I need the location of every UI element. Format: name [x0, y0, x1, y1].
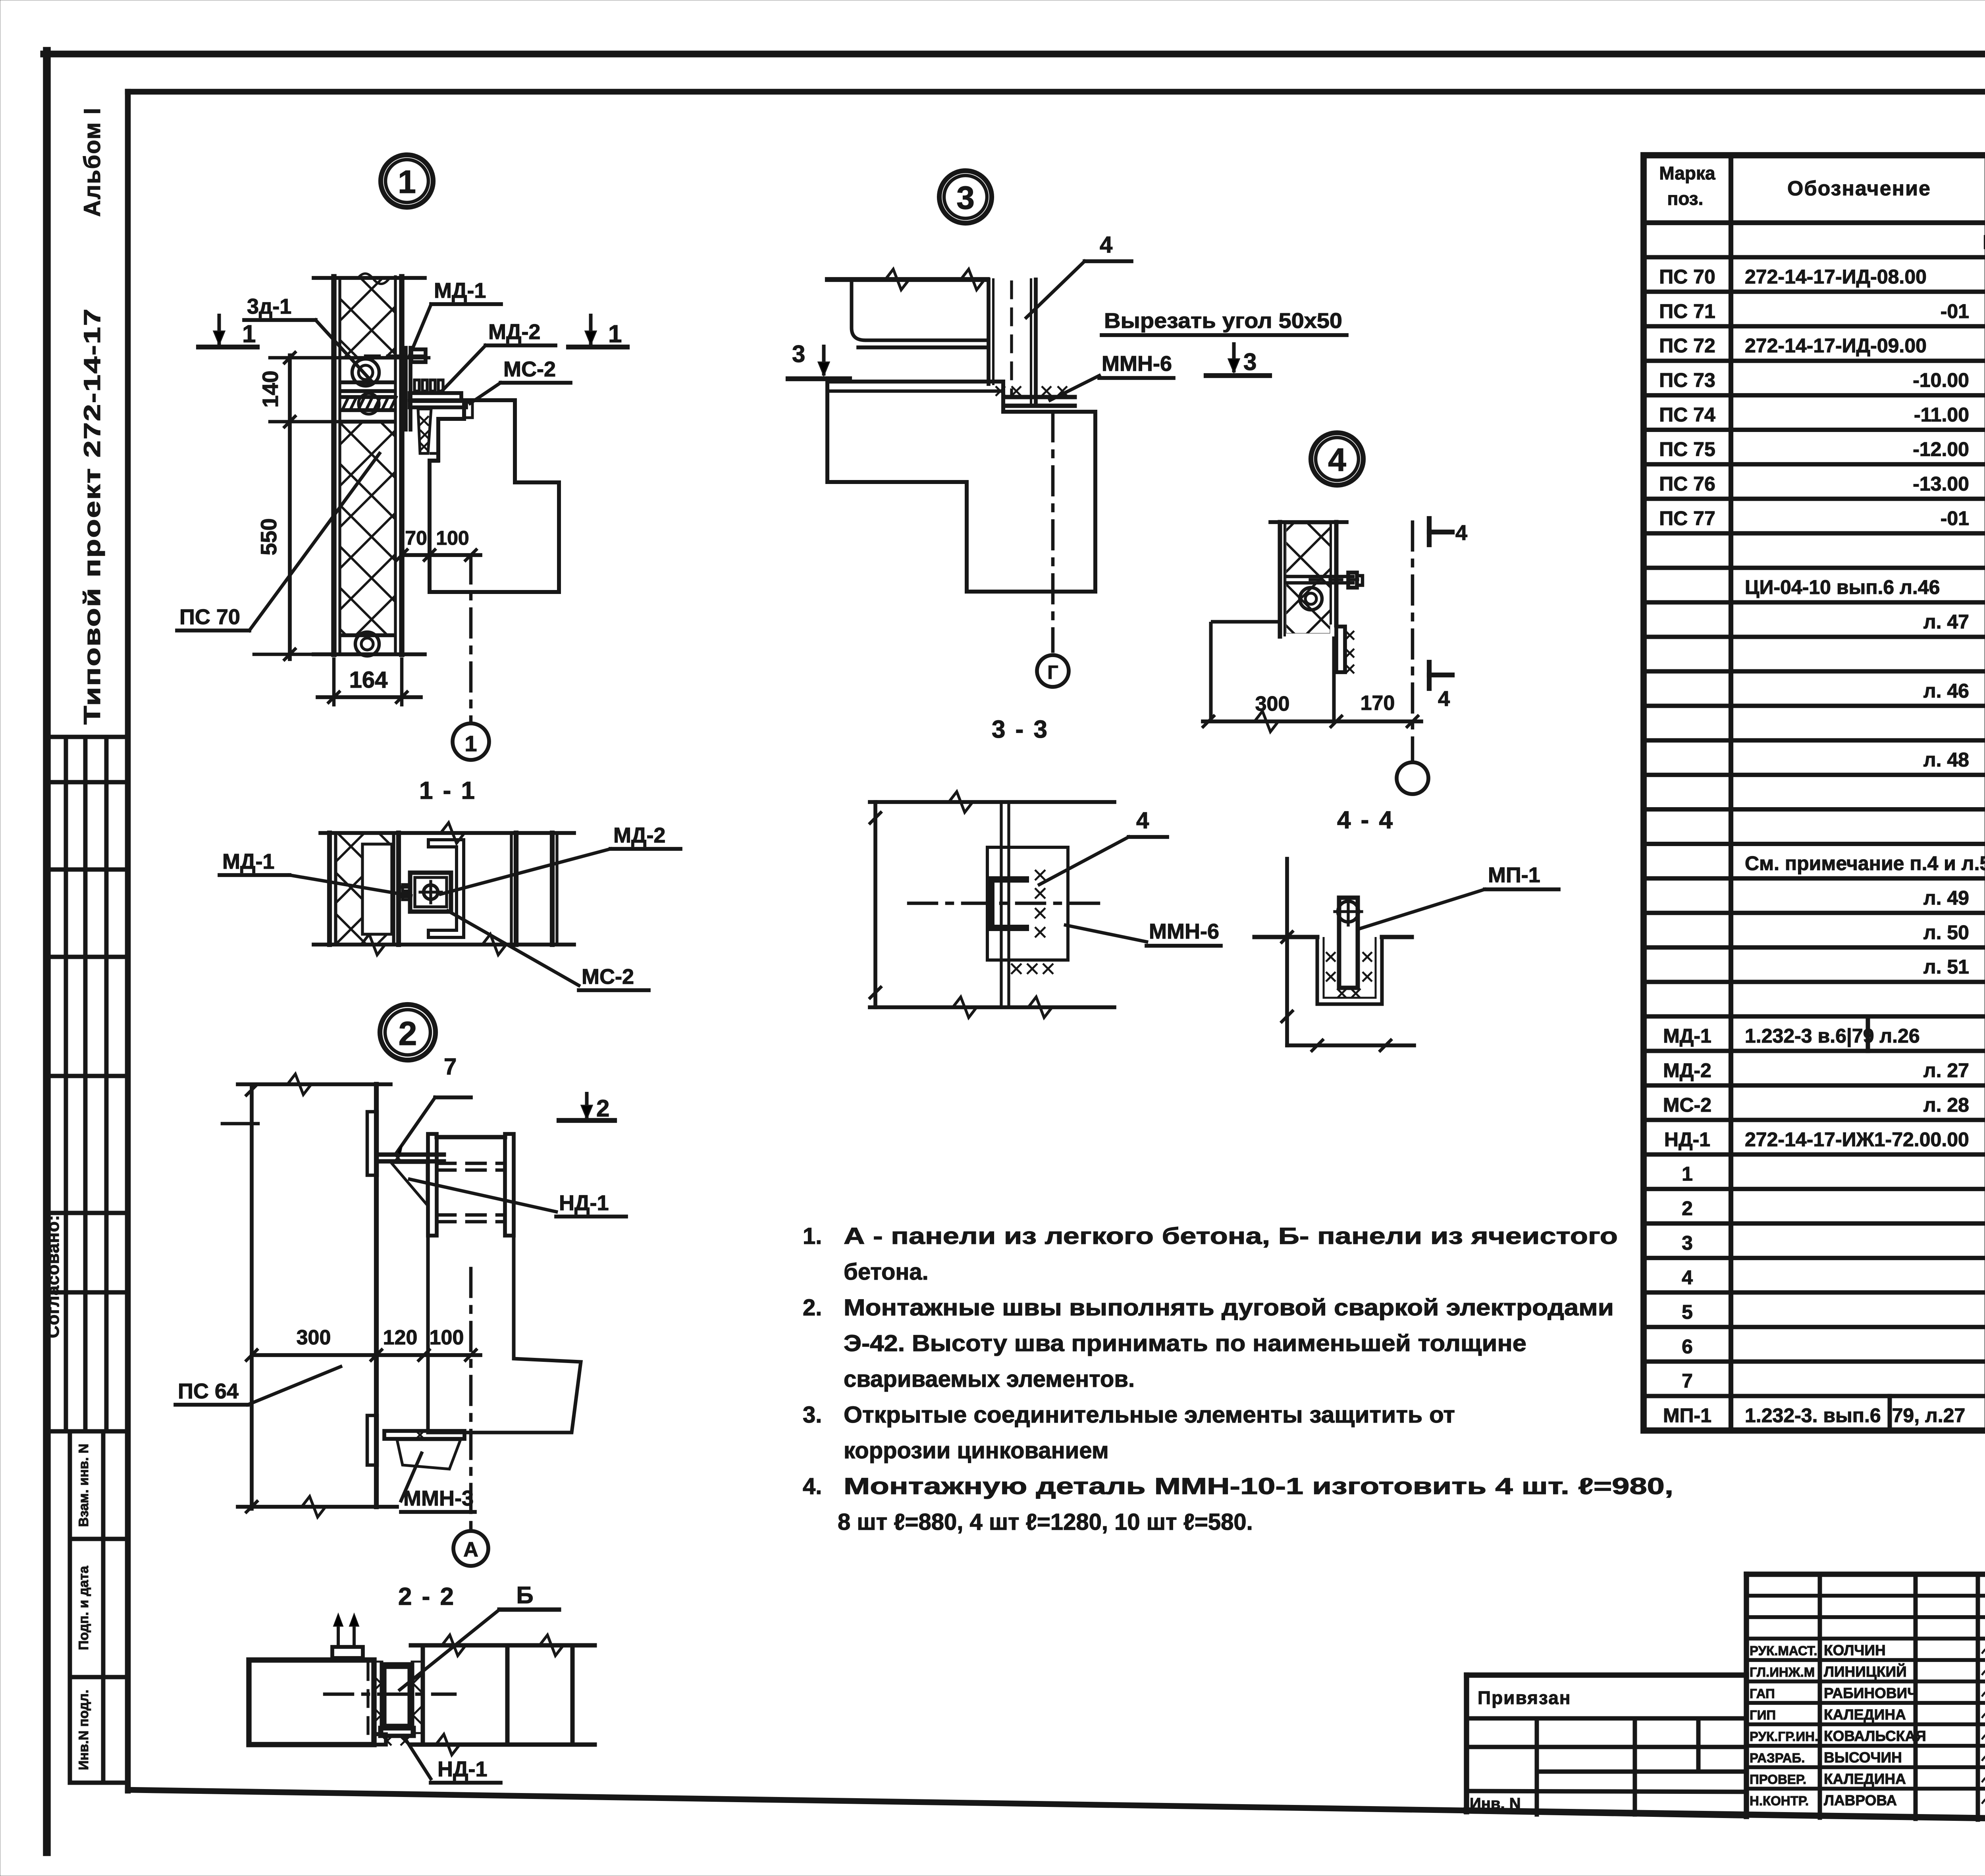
svg-text:Э-42. Высоту шва принимать по: Э-42. Высоту шва принимать по наименьшей… [844, 1330, 1526, 1356]
svg-text:4 - 4: 4 - 4 [1337, 806, 1394, 834]
svg-text:3 - 3: 3 - 3 [992, 716, 1049, 743]
svg-text:Типовой проект 272-14-17: Типовой проект 272-14-17 [79, 308, 105, 725]
section 3-3 break lines and panel [869, 792, 1114, 1018]
svg-text:Обозначение: Обозначение [1787, 177, 1931, 200]
sidebar text Согласовано [43, 1215, 63, 1338]
detail 2 dimension line left [222, 1084, 258, 1514]
svg-text:ММН-6: ММН-6 [1102, 352, 1172, 376]
svg-text:КАЛЕДИНА: КАЛЕДИНА [1824, 1706, 1906, 1723]
svg-text:140: 140 [258, 370, 283, 407]
svg-text:7: 7 [1682, 1370, 1693, 1392]
svg-text:Альбом I: Альбом I [79, 107, 105, 217]
svg-text:л. 51: л. 51 [1923, 956, 1969, 978]
detail 2 dimensions 300 120 100 [252, 1326, 480, 1361]
svg-text:4.: 4. [803, 1473, 822, 1499]
svg-text:МП-1: МП-1 [1488, 863, 1540, 887]
detail 1 label 3д-1 [244, 295, 371, 380]
title block staff columns [1746, 1574, 1985, 1820]
svg-text:Инв. N: Инв. N [1470, 1795, 1521, 1812]
detail 2 label НД-1 [410, 1179, 626, 1217]
detail 2 section mark 2 [559, 1092, 615, 1122]
svg-text:Н.КОНТР.: Н.КОНТР. [1750, 1793, 1809, 1808]
svg-text:МД-2: МД-2 [613, 823, 665, 847]
svg-text:Открытые соединительные элем: Открытые соединительные элементы защитит… [844, 1402, 1455, 1428]
node detail 4: circle marker [1311, 433, 1363, 485]
svg-text:-10.00: -10.00 [1913, 369, 1969, 391]
section 4-4 label МП-1 [1361, 863, 1559, 928]
sidebar lower stamp boxes [70, 1432, 128, 1783]
svg-text:ПС 75: ПС 75 [1659, 438, 1715, 461]
svg-text:1.232-3. вып.6 |79, л.27: 1.232-3. вып.6 |79, л.27 [1745, 1404, 1965, 1427]
section 1-1 label МД-2 [441, 823, 680, 894]
detail 1 wall panel section [314, 274, 425, 656]
svg-text:ГЛ.ИНЖ.М: ГЛ.ИНЖ.М [1750, 1665, 1815, 1679]
svg-text:-01: -01 [1941, 507, 1969, 529]
svg-text:-12.00: -12.00 [1913, 438, 1969, 461]
svg-text:1: 1 [608, 320, 622, 348]
svg-text:3: 3 [1243, 349, 1257, 375]
detail 1 dimension 70 100 and axis [395, 527, 489, 760]
svg-text:3.: 3. [803, 1402, 822, 1428]
svg-text:1.: 1. [803, 1223, 822, 1249]
section 2-2 label Б [400, 1582, 559, 1690]
node detail 2: circle marker [380, 1005, 436, 1060]
svg-text:3: 3 [1682, 1232, 1693, 1254]
section 1-1 detail МД-1 box with bolt [399, 873, 451, 912]
detail 3 vertical panel [989, 280, 1036, 406]
svg-text:Г: Г [1047, 662, 1058, 683]
svg-text:ПС 74: ПС 74 [1659, 404, 1715, 426]
section 1-1 label МД-1 [220, 850, 411, 896]
svg-text:300: 300 [297, 1326, 331, 1349]
svg-text:2: 2 [596, 1095, 609, 1122]
svg-text:1: 1 [1682, 1163, 1693, 1185]
svg-text:Согласовано:: Согласовано: [43, 1215, 63, 1338]
detail 4 axis with circle [1397, 522, 1428, 794]
svg-text:КАЛЕДИНА: КАЛЕДИНА [1824, 1771, 1906, 1787]
svg-text:л. 47: л. 47 [1923, 611, 1969, 633]
svg-text:ПС 71: ПС 71 [1659, 300, 1715, 322]
svg-text:л. 49: л. 49 [1923, 887, 1969, 909]
svg-text:300: 300 [1255, 692, 1290, 715]
detail 3 upper beam [827, 269, 987, 347]
svg-text:-11.00: -11.00 [1914, 404, 1969, 426]
section 2-2 right panels [411, 1635, 595, 1755]
section 3-3 label ММН-6 [1066, 920, 1221, 946]
svg-text:100: 100 [436, 527, 469, 549]
sidebar rotated title: Типовой проект 272-14-17 Альбом I [79, 107, 105, 725]
node detail 3: circle marker [939, 171, 992, 223]
node detail 1: circle marker [381, 155, 433, 207]
svg-text:70: 70 [405, 527, 427, 549]
detail 3 section mark 3 right [1206, 342, 1270, 376]
svg-text:См. примечание п.4 и л.51: См. примечание п.4 и л.51 [1745, 852, 1985, 875]
svg-text:Подп. и дата: Подп. и дата [76, 1566, 91, 1650]
detail 1 dimensions 140 550 164 [254, 351, 429, 705]
detail 2 beam with end plates [428, 1134, 514, 1236]
svg-text:ЛАВРОВА: ЛАВРОВА [1824, 1792, 1897, 1809]
svg-text:272-14-17-ИД-09.00: 272-14-17-ИД-09.00 [1745, 335, 1927, 357]
svg-text:4: 4 [1438, 687, 1450, 711]
svg-text:Монтажные швы выполнять дугово: Монтажные швы выполнять дуговой сваркой … [844, 1295, 1614, 1321]
svg-text:2: 2 [399, 1015, 417, 1052]
detail 2 panel edge and break lines [238, 1074, 397, 1517]
svg-text:5: 5 [1682, 1301, 1693, 1323]
specification table grid [1644, 155, 1985, 1431]
detail 2 column outline with corbel [428, 1236, 581, 1433]
svg-text:ЛИНИЦКИЙ: ЛИНИЦКИЙ [1824, 1663, 1907, 1680]
svg-text:поз.: поз. [1667, 188, 1704, 209]
detail 4 lower beam [1211, 622, 1334, 721]
detail 4 wall panel [1270, 522, 1347, 636]
svg-text:РАБИНОВИЧ: РАБИНОВИЧ [1824, 1685, 1918, 1701]
svg-text:ГИП: ГИП [1750, 1708, 1776, 1722]
svg-text:МС-2: МС-2 [503, 357, 556, 381]
svg-text:550: 550 [256, 518, 281, 555]
svg-text:1: 1 [242, 320, 256, 348]
detail 2 label 7 [397, 1054, 471, 1155]
svg-text:НД-1: НД-1 [559, 1191, 609, 1215]
svg-text:НД-1: НД-1 [437, 1757, 487, 1781]
svg-text:Б: Б [516, 1582, 533, 1608]
svg-text:А: А [463, 1538, 478, 1561]
detail 2 bracket НД-1 with gusset [378, 1154, 444, 1205]
svg-text:ПС 64: ПС 64 [178, 1379, 239, 1403]
svg-text:272-14-17-ИЖ1-72.00.00: 272-14-17-ИЖ1-72.00.00 [1745, 1128, 1969, 1151]
svg-text:МД-1: МД-1 [1663, 1025, 1711, 1047]
section 2-2 weld arrows [332, 1614, 363, 1658]
svg-text:л. 46: л. 46 [1923, 680, 1969, 702]
detail 1 anchor МД-1 bolt and plates [366, 348, 472, 461]
svg-text:1: 1 [464, 731, 477, 756]
svg-text:МД-2: МД-2 [488, 320, 540, 344]
detail 1 label ПС 70 [177, 453, 380, 630]
svg-text:л. 50: л. 50 [1923, 921, 1969, 943]
привязан stamp block [1467, 1675, 1746, 1816]
table cell divider row МП-1 [1888, 1396, 1892, 1431]
section 3-3 axis [909, 902, 1102, 905]
section 4-4 anchor plate МП-1 [1326, 898, 1372, 998]
svg-text:2.: 2. [803, 1295, 822, 1321]
section 2-2 axis line [325, 1693, 455, 1696]
svg-text:МП-1: МП-1 [1663, 1404, 1711, 1427]
svg-text:6: 6 [1682, 1335, 1693, 1357]
svg-text:свариваемых элементов.: свариваемых элементов. [844, 1366, 1135, 1392]
svg-text:Инв.N подл.: Инв.N подл. [76, 1690, 91, 1770]
svg-text:МД-1: МД-1 [222, 850, 274, 873]
svg-text:4: 4 [1136, 808, 1149, 833]
detail 4 dimensions 300 170 [1202, 692, 1421, 732]
detail 2 bottom bracket ММН-3 [384, 1431, 464, 1469]
section 1-1 right wall lines [511, 833, 557, 945]
table cell divider row МД-1 [1866, 1016, 1870, 1051]
svg-text:ПС 70: ПС 70 [1659, 266, 1715, 288]
svg-text:ПРОВЕР.: ПРОВЕР. [1750, 1772, 1806, 1787]
svg-text:4: 4 [1682, 1266, 1693, 1288]
section 1-1 label МС-2 [448, 911, 649, 990]
section 4-4 dimension marks [1281, 859, 1414, 1052]
svg-text:4: 4 [1100, 232, 1112, 258]
detail 3 section mark 3 left [788, 341, 850, 379]
detail 1 column section outline [430, 400, 559, 592]
svg-text:164: 164 [349, 667, 388, 693]
svg-text:Вырезать угол 50х50: Вырезать угол 50х50 [1104, 309, 1342, 333]
detail 1 label МД-1 [410, 279, 501, 355]
svg-text:Привязан: Привязан [1478, 1687, 1571, 1708]
detail 1 section marks 1 [198, 314, 627, 348]
svg-text:А - панели из легкого бетона,: А - панели из легкого бетона, Б- панели … [844, 1223, 1618, 1249]
section 2-2 left panel [249, 1660, 386, 1745]
svg-text:ММН-3: ММН-3 [403, 1487, 474, 1510]
svg-text:МС-2: МС-2 [582, 965, 634, 989]
svg-text:272-14-17-ИД-08.00: 272-14-17-ИД-08.00 [1745, 266, 1927, 288]
svg-text:МС-2: МС-2 [1663, 1094, 1711, 1116]
svg-text:1: 1 [398, 164, 416, 200]
svg-text:1 - 1: 1 - 1 [419, 777, 476, 804]
svg-text:л. 28: л. 28 [1923, 1094, 1969, 1116]
svg-text:КОВАЛЬСКАЯ: КОВАЛЬСКАЯ [1824, 1728, 1926, 1744]
detail 2 label ПС 64 [175, 1367, 341, 1405]
section 3-3 label 4 [1039, 808, 1167, 885]
svg-text:2 - 2: 2 - 2 [398, 1583, 455, 1610]
svg-text:коррозии цинкованием: коррозии цинкованием [844, 1438, 1109, 1463]
svg-text:ПС 77: ПС 77 [1659, 507, 1715, 529]
svg-text:170: 170 [1361, 692, 1395, 715]
svg-text:-01: -01 [1941, 300, 1969, 322]
detail 3 note Вырезать угол 50х50 [1102, 309, 1347, 335]
svg-text:ПС 73: ПС 73 [1659, 369, 1715, 391]
svg-text:ВЫСОЧИН: ВЫСОЧИН [1824, 1749, 1902, 1766]
svg-text:Монтажную деталь ММН-10-1 изг: Монтажную деталь ММН-10-1 изготовить 4 ш… [844, 1473, 1673, 1499]
svg-text:Панели асбестоцементные: Панели асбестоцементные [1983, 231, 1985, 253]
section 2-2 label НД-1 [403, 1736, 501, 1783]
svg-text:ПС 72: ПС 72 [1659, 335, 1715, 357]
svg-text:л. 48: л. 48 [1923, 749, 1969, 771]
table rows text [1659, 231, 1985, 1427]
svg-text:120: 120 [383, 1326, 418, 1349]
svg-text:4: 4 [1455, 521, 1467, 545]
svg-text:3: 3 [792, 341, 805, 367]
svg-text:3д-1: 3д-1 [247, 295, 291, 318]
svg-text:ЦИ-04-10 вып.6 л.46: ЦИ-04-10 вып.6 л.46 [1745, 576, 1940, 598]
svg-text:л. 27: л. 27 [1923, 1059, 1969, 1082]
detail 2 label ММН-3 [401, 1453, 475, 1512]
svg-text:8 шт ℓ=880, 4 шт ℓ=1280, 10: 8 шт ℓ=880, 4 шт ℓ=1280, 10 шт ℓ=580. [838, 1509, 1253, 1535]
section 1-1 bracket МД-2 C-shape [428, 840, 464, 937]
svg-text:ПС 70: ПС 70 [179, 605, 240, 629]
svg-text:РУК.ГР.ИН.: РУК.ГР.ИН. [1750, 1729, 1818, 1744]
detail 3 lower beam and column polygon [827, 382, 1095, 592]
detail 1 label МД-2 [441, 320, 555, 391]
detail 3 label ММН-6 [1050, 352, 1174, 400]
svg-text:МД-2: МД-2 [1663, 1059, 1711, 1082]
svg-text:Марка: Марка [1659, 163, 1715, 183]
svg-text:РАЗРАБ.: РАЗРАБ. [1750, 1751, 1805, 1765]
svg-text:НД-1: НД-1 [1664, 1128, 1710, 1151]
svg-text:-13.00: -13.00 [1913, 472, 1969, 495]
notes paragraph [803, 1223, 1673, 1535]
detail 4 section marks 4 [1429, 519, 1467, 711]
svg-text:КОЛЧИН: КОЛЧИН [1824, 1642, 1886, 1658]
svg-text:Взам. инв. N: Взам. инв. N [76, 1444, 91, 1527]
section 1-1 plan cut [314, 823, 574, 955]
svg-text:100: 100 [430, 1326, 464, 1349]
svg-text:3: 3 [956, 180, 975, 216]
svg-text:1.232-3 в.6|79 л.26: 1.232-3 в.6|79 л.26 [1745, 1025, 1920, 1047]
section 4-4 slab with pocket [1255, 937, 1412, 1004]
detail 4 bracket plate right [1336, 627, 1354, 673]
svg-text:7: 7 [444, 1054, 457, 1080]
svg-text:РУК.МАСТ.: РУК.МАСТ. [1750, 1643, 1817, 1658]
svg-text:МД-1: МД-1 [434, 279, 486, 303]
svg-text:ГАП: ГАП [1750, 1686, 1775, 1701]
svg-text:ПС 76: ПС 76 [1659, 472, 1715, 495]
section 2-2 central joint НД-1 [375, 1662, 422, 1745]
svg-text:4: 4 [1328, 442, 1346, 478]
detail 1 label МС-2 [470, 357, 570, 403]
svg-text:ММН-6: ММН-6 [1149, 920, 1219, 943]
detail 3 label 4 [1026, 232, 1131, 318]
detail 3 joint ММН-6 plate [996, 386, 1075, 406]
sidebar column grid [47, 737, 128, 1431]
detail 2 axis and circle А [453, 1269, 488, 1566]
detail 3 axis and circle Г [1037, 413, 1069, 687]
detail 4 bolt through panel [1286, 573, 1363, 610]
table header labels [1659, 162, 1985, 220]
svg-text:2: 2 [1682, 1197, 1693, 1220]
section 3-3 joint box with channel ММН-6 [987, 847, 1068, 974]
svg-text:бетона.: бетона. [844, 1259, 929, 1285]
